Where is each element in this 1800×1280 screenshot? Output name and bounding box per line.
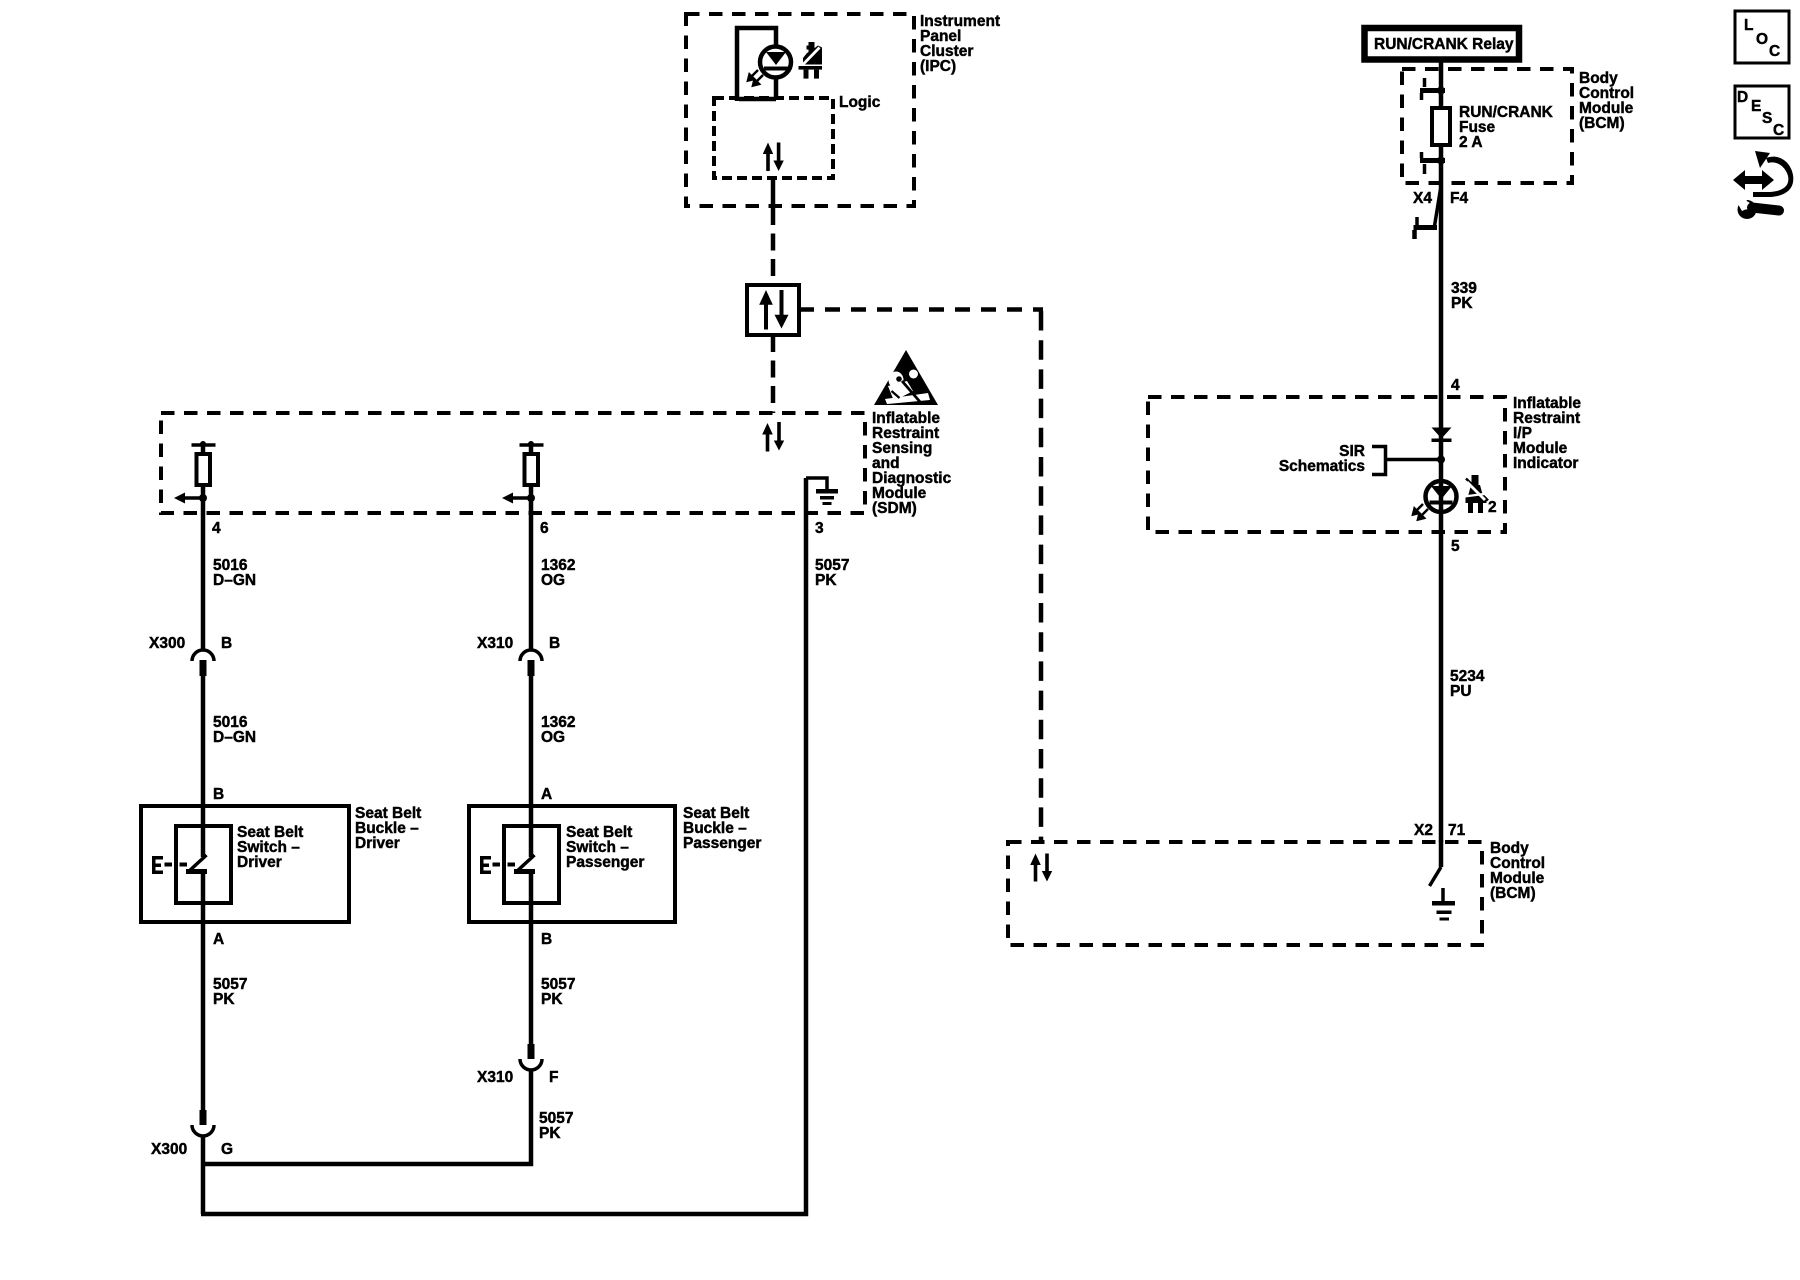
svg-text:(SDM): (SDM) <box>872 500 917 517</box>
svg-text:F4: F4 <box>1450 190 1468 207</box>
svg-text:(BCM): (BCM) <box>1490 885 1536 902</box>
svg-text:71: 71 <box>1448 822 1466 839</box>
svg-text:A: A <box>541 786 552 803</box>
svg-text:B: B <box>541 931 552 948</box>
svg-text:L: L <box>1744 17 1753 34</box>
svg-text:D–GN: D–GN <box>213 572 256 589</box>
svg-text:Schematics: Schematics <box>1279 458 1365 475</box>
svg-text:3: 3 <box>815 520 824 537</box>
svg-text:RUN/CRANK Relay: RUN/CRANK Relay <box>1374 36 1514 53</box>
svg-text:B: B <box>221 635 232 652</box>
svg-text:B: B <box>549 635 560 652</box>
svg-text:(BCM): (BCM) <box>1579 115 1625 132</box>
svg-text:Indicator: Indicator <box>1513 455 1578 472</box>
svg-text:PK: PK <box>815 572 837 589</box>
svg-text:G: G <box>221 1141 233 1158</box>
svg-text:O: O <box>1756 31 1768 48</box>
svg-text:PK: PK <box>539 1125 561 1142</box>
svg-text:6: 6 <box>540 520 549 537</box>
svg-text:D: D <box>1737 89 1748 106</box>
svg-text:Driver: Driver <box>237 854 282 871</box>
svg-text:B: B <box>213 786 224 803</box>
svg-text:E: E <box>1751 98 1761 115</box>
svg-text:PK: PK <box>213 991 235 1008</box>
svg-text:PK: PK <box>1451 295 1473 312</box>
svg-text:4: 4 <box>212 520 221 537</box>
svg-text:PU: PU <box>1450 683 1472 700</box>
svg-text:OG: OG <box>541 572 565 589</box>
svg-text:F: F <box>549 1069 558 1086</box>
svg-text:X4: X4 <box>1413 190 1432 207</box>
svg-text:(IPC): (IPC) <box>920 58 956 75</box>
svg-text:X2: X2 <box>1414 822 1433 839</box>
svg-text:Passenger: Passenger <box>683 835 761 852</box>
svg-text:D–GN: D–GN <box>213 729 256 746</box>
svg-text:Passenger: Passenger <box>566 854 644 871</box>
svg-text:A: A <box>213 931 224 948</box>
svg-text:S: S <box>1762 110 1772 127</box>
svg-text:PK: PK <box>541 991 563 1008</box>
svg-text:Logic: Logic <box>839 94 881 111</box>
svg-text:4: 4 <box>1451 377 1460 394</box>
svg-text:OG: OG <box>541 729 565 746</box>
svg-text:X300: X300 <box>149 635 185 652</box>
svg-text:5: 5 <box>1451 538 1460 555</box>
svg-text:2 A: 2 A <box>1459 134 1483 151</box>
svg-text:X310: X310 <box>477 1069 513 1086</box>
svg-text:X310: X310 <box>477 635 513 652</box>
svg-text:2: 2 <box>1488 499 1497 516</box>
svg-text:C: C <box>1769 43 1780 60</box>
svg-text:X300: X300 <box>151 1141 187 1158</box>
svg-text:Driver: Driver <box>355 835 400 852</box>
svg-text:C: C <box>1773 122 1784 139</box>
